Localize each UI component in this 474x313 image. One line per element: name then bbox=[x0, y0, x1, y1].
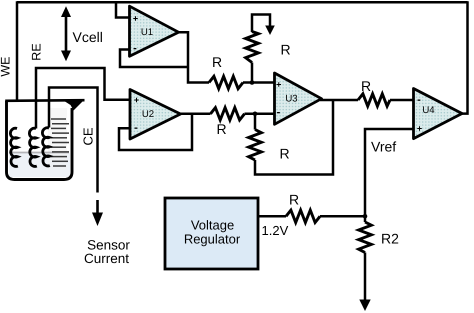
voltage regulator box bbox=[165, 198, 258, 269]
op-amp U2 bbox=[130, 90, 181, 140]
svg-text:1.2V: 1.2V bbox=[262, 223, 289, 238]
wire U2 output to R bbox=[179, 113, 211, 116]
ground symbol (arrow) bbox=[252, 15, 275, 36]
resistor R (regulator to R2 node) bbox=[286, 210, 320, 222]
wire R2 to ground bbox=[364, 253, 367, 302]
svg-text:R2: R2 bbox=[381, 231, 399, 247]
svg-text:U3: U3 bbox=[285, 94, 297, 105]
wire feedback loop to U3 output bbox=[255, 100, 333, 175]
svg-text:+: + bbox=[133, 14, 138, 24]
junction at U3+ node bbox=[250, 80, 255, 85]
beaker glass outline bbox=[7, 101, 73, 180]
resistor R (U1 to U3+) bbox=[209, 76, 243, 88]
electrode coil WE bbox=[10, 128, 17, 166]
svg-text:U2: U2 bbox=[142, 109, 154, 120]
svg-text:CE: CE bbox=[81, 127, 96, 145]
svg-text:U1: U1 bbox=[141, 27, 153, 38]
svg-text:R: R bbox=[280, 42, 290, 58]
svg-text:-: - bbox=[134, 122, 138, 134]
sensor current arrow bbox=[92, 200, 103, 226]
svg-text:+: + bbox=[134, 95, 139, 105]
wire node to R2 bbox=[364, 216, 367, 222]
junction at U3- node bbox=[253, 112, 258, 117]
wire U3+ node up to ground resistor bbox=[251, 63, 254, 83]
beaker (electrochemical cell) bbox=[5, 100, 84, 180]
svg-text:RE: RE bbox=[30, 43, 44, 60]
wire R to U3+ bbox=[243, 81, 275, 84]
op-amp U4 bbox=[414, 89, 463, 139]
svg-text:-: - bbox=[417, 94, 421, 106]
wire U1 feedback bbox=[120, 50, 188, 68]
beaker rim and pouring lip bbox=[5, 99, 84, 102]
svg-text:Vcell: Vcell bbox=[73, 29, 103, 45]
wire RE to U2+ bbox=[36, 68, 131, 129]
wire WE vertical bbox=[16, 1, 19, 129]
ground symbol (arrow below R2) bbox=[359, 300, 370, 312]
svg-text:+: + bbox=[276, 80, 281, 90]
wire U3- node down to feedback resistor bbox=[254, 114, 257, 130]
svg-text:WE: WE bbox=[0, 57, 13, 77]
junction at Vref node bbox=[363, 214, 368, 219]
liquid line bbox=[9, 152, 69, 154]
resistor R (to ground) bbox=[246, 32, 259, 63]
svg-text:+: + bbox=[417, 124, 422, 134]
wire CE to sensor-current stub bbox=[49, 88, 98, 193]
svg-text:-: - bbox=[133, 43, 137, 55]
wire R to R2 node bbox=[320, 215, 365, 218]
svg-text:R: R bbox=[289, 192, 299, 208]
wire U1 output down to R bbox=[177, 32, 209, 82]
resistor R2 bbox=[359, 222, 372, 253]
resistor R (U3 feedback) bbox=[249, 130, 262, 161]
svg-text:R: R bbox=[361, 78, 371, 94]
svg-text:Current: Current bbox=[84, 251, 129, 266]
svg-text:Voltage: Voltage bbox=[191, 218, 234, 233]
Vcell measurement arrow bbox=[61, 6, 71, 61]
wire regulator output to R bbox=[258, 215, 286, 218]
svg-text:Vref: Vref bbox=[371, 139, 396, 155]
resistor R (U2 to U3-) bbox=[211, 108, 245, 120]
wire R to U4 bbox=[390, 99, 414, 102]
wire tap to U1 + input bbox=[116, 2, 130, 17]
electrode coil CE bbox=[42, 128, 49, 166]
op-amp U1 bbox=[130, 6, 179, 56]
svg-text:R: R bbox=[216, 121, 226, 137]
svg-text:R: R bbox=[212, 54, 222, 70]
wire top rail (U4 output to WE and U1+) bbox=[17, 1, 468, 4]
svg-text:-: - bbox=[277, 107, 281, 119]
resistor R (U3 to U4) bbox=[358, 94, 390, 106]
electrode coil RE bbox=[29, 128, 36, 166]
wire U3 output to R bbox=[320, 99, 358, 102]
electrode hatch lines bbox=[51, 119, 69, 166]
svg-text:R: R bbox=[279, 146, 289, 162]
wire R to U3- bbox=[245, 113, 275, 116]
wire Vref to U4+ bbox=[365, 129, 414, 216]
op-amp U3 bbox=[275, 73, 322, 124]
wire U2 feedback bbox=[119, 114, 192, 150]
wire U4 output vertical bbox=[459, 1, 468, 113]
svg-text:Regulator: Regulator bbox=[184, 231, 241, 246]
svg-text:U4: U4 bbox=[422, 105, 435, 116]
